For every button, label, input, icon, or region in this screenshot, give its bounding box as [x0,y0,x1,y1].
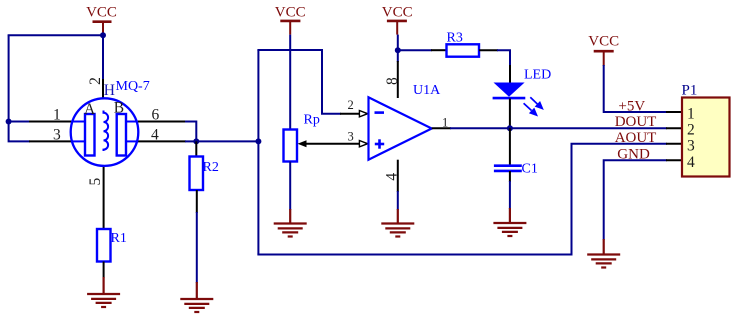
LED cathode bar [493,97,526,100]
svg-text:R2: R2 [203,160,219,175]
op-amp minus sign [375,111,385,114]
wire pin4 to junction [185,140,196,142]
svg-text:LED: LED [524,68,551,83]
svg-text:C1: C1 [522,162,538,177]
wire pin6 corner down to pin4 junction [185,122,196,142]
wire VCC junction to R3 [398,49,432,51]
svg-text:P1: P1 [682,83,698,99]
resistor R3 [447,44,480,56]
svg-text:DOUT: DOUT [615,114,657,130]
svg-text:GND: GND [617,146,650,162]
svg-text:2: 2 [687,122,695,139]
connector P1 pin 3 lead [666,143,683,145]
wire C1 to ground [509,181,511,209]
sensor MQ-7 electrode A [85,114,95,156]
sensor MQ-7 pin 2 [102,79,104,112]
svg-text:2: 2 [348,98,354,112]
wire loop rail vertical [257,50,259,255]
wire R2 to ground [196,212,198,283]
svg-text:1: 1 [442,116,448,130]
svg-text:R3: R3 [447,31,463,46]
potentiometer Rp [284,130,298,162]
connector P1 pin 1 lead [666,111,683,113]
resistor R3 pin right [479,49,498,51]
svg-text:3: 3 [687,137,695,154]
op-amp U1A pin 8 [397,61,399,98]
svg-text:3: 3 [53,127,61,144]
node junction at VCC/pin2 [100,32,106,38]
svg-text:+5V: +5V [618,99,645,115]
wire VCC to pin 8 junction [397,35,399,62]
wire loop top to op-amp pin 2 [257,50,341,114]
op-amp U1A pin 4 [397,160,399,192]
ground under C1 [493,208,526,236]
wire R1 bottom [103,262,105,279]
op-amp U1A pin 1 lead [432,127,451,129]
op-amp U1A pin 2 lead [340,113,360,115]
sensor MQ-7 heater coil [104,111,109,152]
wire junction to left loop rail [196,140,258,142]
ground under op-amp [381,209,414,237]
wire R3 to LED [497,50,510,66]
LED triangle [494,83,525,97]
wiper arrow of Rp [298,140,361,147]
wire VCC to Rp [289,35,291,130]
svg-text:8: 8 [384,77,401,85]
svg-text:A: A [84,101,96,118]
sensor MQ-7 pin 1 [29,121,72,123]
svg-text:2: 2 [87,77,104,85]
power symbol VCC (over P1) [588,34,619,67]
svg-text:VCC: VCC [86,5,117,21]
sensor MQ-7 electrode stubs [71,122,138,142]
svg-text:R1: R1 [111,231,127,246]
wire left rail vertical [9,35,30,141]
node junction left rail pin1 [6,119,12,125]
op-amp U1A body [369,97,432,159]
op-amp U1A pin 3 arrowhead [359,141,367,147]
sensor MQ-7 pin 6 [137,121,186,123]
wire output net to P1 pin 2 (DOUT) [450,127,667,129]
LED anode pin [509,65,511,83]
power symbol VCC (over op-amp) [382,5,413,35]
op-amp U1A pin 2 arrowhead [359,111,367,117]
sensor MQ-7 electrode B [117,114,126,156]
resistor R2 [190,157,204,191]
svg-text:1: 1 [687,106,695,123]
svg-text:VCC: VCC [588,34,619,50]
wire bottom run to AOUT [257,144,667,255]
ground under R2 [180,282,213,312]
svg-text:U1A: U1A [413,83,441,98]
node junction LED/C1/output [507,125,513,131]
wire R2 bottom [196,190,198,213]
wire P1 pin 4 to ground (GND) [604,160,667,240]
ground under P1 [587,239,620,268]
svg-text:6: 6 [152,107,160,124]
wire Rp bottom to ground [289,162,291,211]
LED emission arrows [524,97,543,115]
wire VCC to sensor pin 2 [102,35,104,80]
node junction VCC/R3/pin8 [395,47,401,53]
wire VCC junction to left rail [8,34,104,36]
node junction pin4/R2 [193,138,199,144]
connector P1 pin 2 lead [666,127,683,129]
sensor MQ-7 pin 4 [137,140,186,142]
power symbol VCC (over MQ-7) [86,5,117,36]
wire left rail to pin 1 [9,121,30,123]
sensor MQ-7 pin 5 [103,151,105,230]
svg-text:5: 5 [87,177,104,185]
ground under Rp [274,209,307,237]
capacitor C1 bottom pin [509,171,511,182]
svg-text:AOUT: AOUT [615,130,657,146]
capacitor C1 plates [494,166,522,171]
sensor MQ-7 body circle [71,98,139,166]
resistor R3 pin left [431,49,447,51]
sensor MQ-7 pin 3 [29,140,72,142]
capacitor C1 top pin [509,128,511,165]
svg-text:MQ-7: MQ-7 [116,79,150,94]
svg-text:B: B [114,100,124,117]
svg-text:VCC: VCC [275,5,306,21]
connector P1 body [682,98,730,177]
wire R2 top [195,141,197,157]
node junction loop rail [255,138,261,144]
wire VCC to P1 pin 1 (+5V) [604,65,667,112]
resistor R1 [97,229,111,262]
svg-text:4: 4 [151,127,159,144]
svg-text:4: 4 [687,154,695,171]
op-amp plus sign [375,139,384,148]
svg-text:3: 3 [348,129,354,143]
power symbol VCC (over Rp) [275,5,306,35]
connector P1 pin 4 lead [666,159,683,161]
ground under R1 [87,277,120,307]
svg-text:H: H [104,82,115,99]
svg-text:VCC: VCC [382,5,413,21]
svg-text:Rp: Rp [304,113,320,128]
svg-text:1: 1 [53,107,61,124]
LED cathode pin [509,99,511,130]
wire pin 4 to ground [397,191,399,210]
svg-text:4: 4 [383,173,400,181]
